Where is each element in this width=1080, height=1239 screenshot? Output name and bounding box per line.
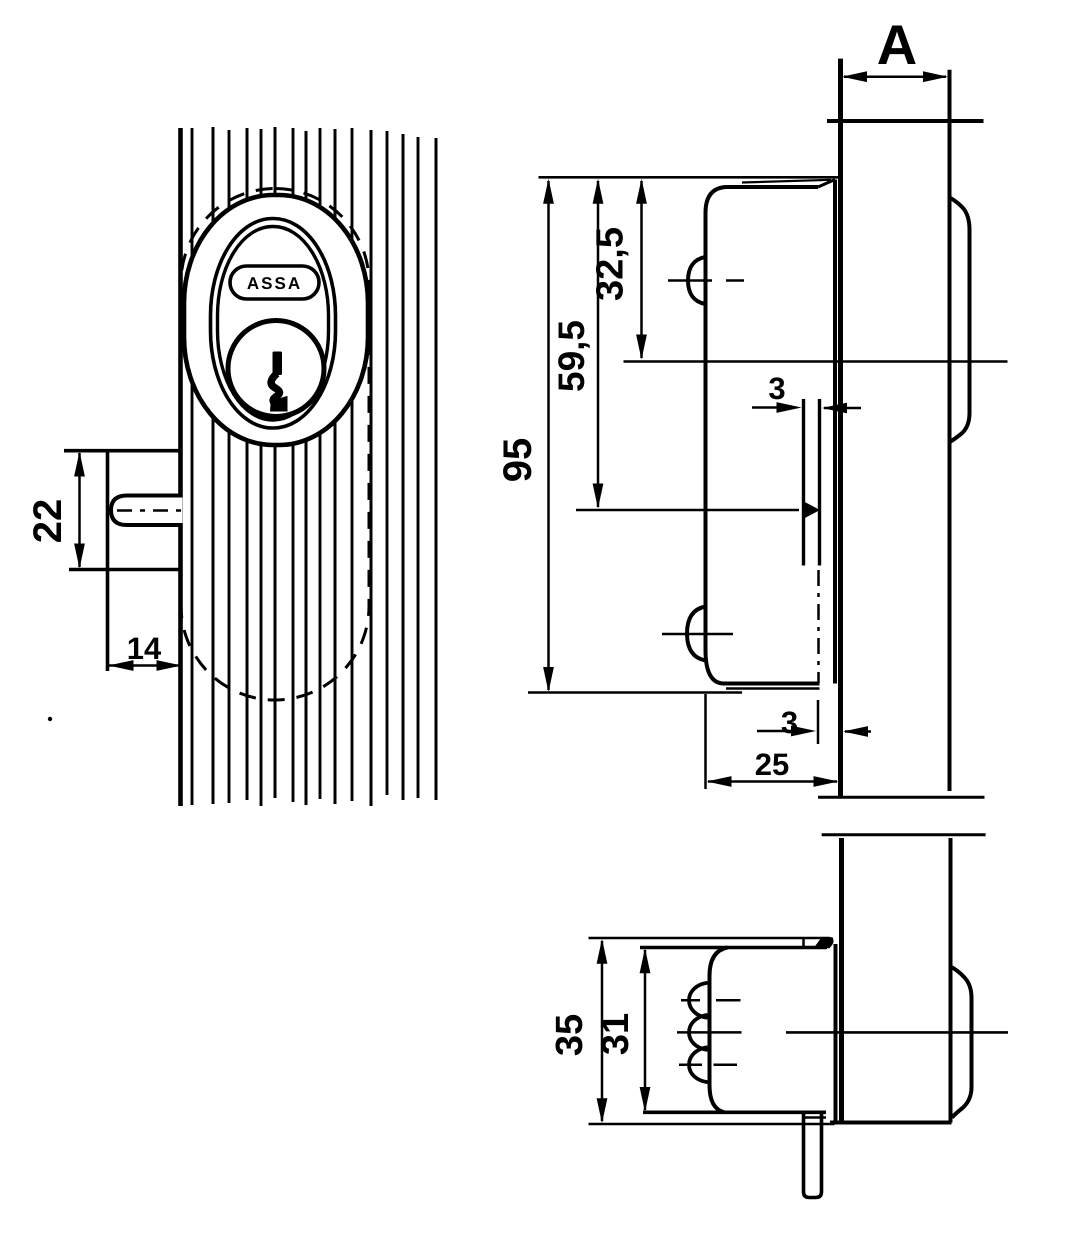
svg-text:A: A: [877, 13, 917, 76]
35 bottom extension line: [589, 1123, 835, 1126]
dimension 31 arrow down: [640, 1087, 651, 1112]
dimension 3 top right arrow: [824, 407, 861, 410]
screw post scallop 2 (bottom view): [689, 1015, 708, 1050]
svg-text:35: 35: [549, 1014, 591, 1056]
case top edge (bottom view): [640, 946, 827, 950]
upper screw post bump: [688, 257, 706, 304]
door break line lower: [822, 833, 986, 836]
keyhole slot: [273, 352, 283, 376]
cam bar left edge: [802, 399, 805, 566]
spindle pin: [804, 1112, 822, 1197]
keyhole curved bottom: [271, 374, 279, 405]
dimension 3 top left arrow: [752, 406, 780, 409]
dimension 35 arrow up: [597, 939, 608, 964]
door outer face line (bottom view): [839, 838, 844, 1123]
door inner face line (bottom view): [949, 838, 953, 1123]
svg-text:ASSA: ASSA: [247, 274, 302, 293]
svg-text:95: 95: [496, 438, 540, 483]
dimension 3 bottom extension line: [817, 700, 820, 744]
escutcheon outer oval: [184, 195, 368, 445]
95 bottom extension line: [528, 691, 742, 694]
svg-text:59,5: 59,5: [551, 320, 592, 392]
svg-text:31: 31: [595, 1013, 637, 1055]
screw post 3 centerline: [679, 1063, 702, 1066]
dimension 59,5 arrow down: [593, 484, 604, 509]
svg-text:22: 22: [26, 499, 70, 544]
dimension 31 line: [644, 950, 647, 1110]
escutcheon inner oval (inner line): [218, 227, 329, 421]
svg-text:25: 25: [755, 747, 789, 782]
dimension 14 line: [109, 664, 181, 667]
dimension 22 arrow up: [74, 452, 85, 477]
dimension 14 arrow left: [109, 660, 134, 671]
25 left extension line: [704, 694, 707, 789]
outside cylinder cap: [950, 198, 970, 442]
dimension 3 bottom left arrow: [757, 730, 790, 733]
door bottom edge: [830, 1121, 952, 1125]
lower screw post centerline: [662, 633, 733, 636]
case bottom edge second line: [726, 687, 820, 690]
dimension 35 line: [601, 941, 604, 1121]
dimension A arrow right: [923, 71, 948, 82]
door break line upper: [818, 796, 985, 799]
dimension 14 arrow right: [157, 660, 182, 671]
dimension 31 arrow up: [640, 948, 651, 973]
case top edge inner line: [742, 180, 831, 183]
dimension 32,5 line: [640, 181, 643, 358]
case left edge: [704, 213, 708, 650]
dimension 25 line: [708, 780, 837, 783]
dimension 95 line: [547, 181, 550, 690]
case bottom-left corner: [706, 650, 725, 684]
case top edge: [727, 185, 818, 189]
escutcheon inner oval (outer line): [211, 219, 336, 429]
case right edge: [833, 180, 837, 684]
dimension 25 arrow right: [814, 776, 839, 787]
dimension 95 arrow down: [543, 667, 554, 692]
case top edge chamfer: [818, 180, 835, 188]
screw post 2 centerline / axis: [677, 1031, 742, 1034]
case left edge (bottom view): [708, 976, 712, 1085]
top extension line: [539, 176, 839, 179]
bolt (rounded end): [111, 496, 183, 526]
door outer face line: [838, 59, 843, 797]
door stile vertical hatching: [181, 127, 437, 806]
dimension 59,5 arrow up: [593, 179, 604, 204]
upper screw post centerline: [668, 279, 712, 282]
bolt centerline (dash-dot): [117, 509, 186, 511]
dimension 32,5 arrow down: [636, 335, 647, 360]
stray dot: [48, 717, 52, 721]
outside cylinder cap (bottom view): [951, 967, 972, 1118]
case bottom-left corner (bottom view): [710, 1085, 725, 1112]
door inner face line: [948, 70, 952, 791]
svg-text:14: 14: [127, 631, 162, 666]
cylinder axis line: [624, 360, 1008, 363]
case bottom edge (bottom view): [643, 1111, 826, 1115]
mounting tab: [802, 938, 805, 948]
ASSA badge pill: [230, 266, 319, 299]
bolt housing left edge / 14-dim extension: [106, 451, 110, 671]
cam hidden centerline: [817, 570, 820, 683]
lower screw post bump: [687, 607, 706, 661]
svg-text:32,5: 32,5: [590, 227, 632, 301]
dimension 35 arrow down: [597, 1098, 608, 1123]
35 top extension line: [589, 937, 831, 940]
case top-left corner (bottom view): [710, 948, 728, 977]
dimension 22 line: [78, 453, 81, 567]
door top edge line: [827, 119, 984, 123]
cam bar right edge: [818, 399, 821, 566]
bolt housing bottom edge: [69, 568, 183, 572]
cylinder axis (bottom view): [786, 1031, 1008, 1034]
hidden lock-case dashed outline: [181, 189, 369, 701]
dimension A line: [844, 75, 946, 78]
dimension 95 arrow up: [543, 179, 554, 204]
key cylinder circle: [228, 321, 324, 417]
dimension 22 arrow down: [74, 544, 85, 569]
dimension 59,5 line: [597, 181, 600, 507]
dimension 25 arrow left: [707, 776, 732, 787]
svg-text:3: 3: [768, 371, 785, 406]
case bottom edge near pin: [803, 1116, 826, 1119]
dimension A arrow left: [842, 71, 867, 82]
dimension 32,5 arrow up: [636, 179, 647, 204]
case top-left corner: [706, 187, 728, 213]
screw post scallop 3 (bottom view): [689, 1047, 708, 1082]
dimension 3 bottom right arrow: [845, 730, 871, 733]
screw post scallop 1 (bottom view): [689, 983, 708, 1018]
59,5 reference line with arrow: [576, 509, 799, 512]
bolt housing top edge: [64, 449, 183, 453]
case bottom edge: [724, 682, 820, 686]
screw post 1 centerline: [681, 999, 700, 1002]
case right edge (bottom view): [834, 944, 838, 1121]
